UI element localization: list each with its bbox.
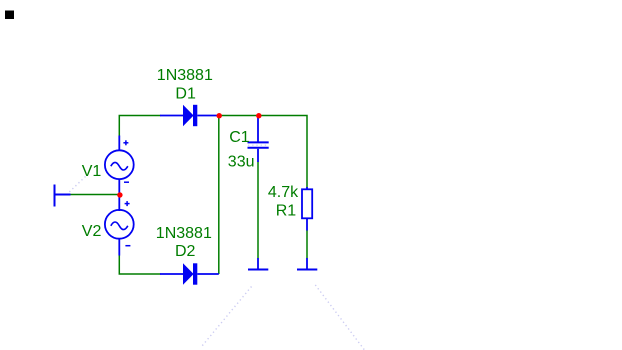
wire top mid (D1 cathode junction to C1 junction) bbox=[217, 115, 258, 117]
svg-text:V1: V1 bbox=[82, 163, 102, 180]
junction node at C1 top bbox=[256, 113, 261, 118]
ghost rubber-band line near ground bbox=[65, 177, 86, 197]
resistor R1 bbox=[302, 187, 312, 231]
wire top-left corner (V1 top to D1) bbox=[119, 116, 160, 137]
svg-text:D2: D2 bbox=[175, 243, 196, 260]
diode D2 bbox=[183, 263, 197, 284]
ground terminal bbox=[55, 185, 71, 207]
ghost dash between C1 plates bbox=[248, 144, 269, 146]
svg-text:C1: C1 bbox=[229, 129, 250, 146]
svg-text:D1: D1 bbox=[175, 85, 196, 102]
wire right vertical (D2 cathode up to junction) bbox=[218, 116, 220, 275]
marker square top-left bbox=[5, 11, 14, 20]
svg-text:V2: V2 bbox=[82, 223, 102, 240]
terminal below R1 bbox=[297, 258, 317, 270]
junction node between V1 and V2 bbox=[117, 192, 122, 197]
svg-text:33u: 33u bbox=[228, 153, 255, 170]
svg-text:1N3881: 1N3881 bbox=[157, 67, 213, 84]
wire top right (C1 junction to R1 corner and down) bbox=[258, 116, 307, 188]
diode D1 bbox=[183, 105, 197, 126]
ghost rubber-band line from C1 terminal bbox=[202, 287, 252, 347]
svg-text:R1: R1 bbox=[276, 202, 297, 219]
wire R1 bottom lead to terminal bbox=[306, 230, 308, 259]
junction node at D1 cathode bbox=[217, 113, 222, 118]
source V1 bbox=[105, 136, 134, 212]
wire bottom left (V2 bottom to D2) bbox=[119, 255, 160, 274]
ghost rubber-band line from R1 terminal bbox=[315, 285, 364, 350]
capacitor C1 bbox=[248, 117, 269, 162]
terminal below C1 bbox=[248, 258, 268, 270]
svg-text:4.7k: 4.7k bbox=[268, 184, 299, 201]
wire ground to V1/V2 midpoint bbox=[70, 194, 120, 196]
wire C1 bottom lead to terminal bbox=[257, 162, 259, 259]
source V2 bbox=[105, 201, 134, 255]
svg-text:1N3881: 1N3881 bbox=[156, 225, 212, 242]
